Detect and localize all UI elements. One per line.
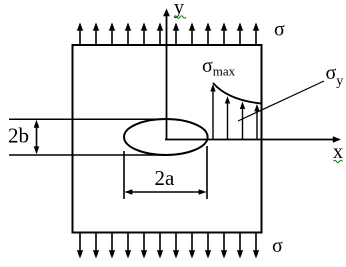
bottom load arrow 4 xyxy=(125,233,131,259)
elliptical hole xyxy=(124,119,208,155)
top load arrow 10 xyxy=(221,23,227,46)
2a right extension line xyxy=(206,146,208,199)
bottom load arrow 10 xyxy=(221,233,227,259)
top load arrow 8 xyxy=(189,23,195,46)
stress distribution curve xyxy=(213,83,261,104)
y-axis xyxy=(163,9,170,141)
svg-text:σy: σy xyxy=(326,62,344,89)
bottom load arrow 6 xyxy=(157,233,163,259)
top load arrow 11 xyxy=(237,23,243,46)
bottom load arrow 8 xyxy=(189,233,195,259)
svg-text:2b: 2b xyxy=(8,124,29,148)
svg-text:σ: σ xyxy=(272,235,283,257)
sigma y leader line xyxy=(238,81,324,121)
svg-text:2a: 2a xyxy=(155,166,176,190)
bottom load arrow 7 xyxy=(173,233,179,259)
spellcheck squiggle under y xyxy=(174,16,186,19)
bottom load arrow 5 xyxy=(141,233,147,259)
2a left extension line xyxy=(123,151,125,199)
top load arrow 2 xyxy=(93,23,99,46)
top load arrow 6 xyxy=(157,23,163,46)
bottom load arrow 2 xyxy=(93,233,99,259)
stress arrow 2 xyxy=(225,96,230,139)
bottom load arrow 12 xyxy=(253,233,259,259)
top load arrow 3 xyxy=(109,23,115,46)
spellcheck squiggle under x xyxy=(334,160,343,163)
2b upper extension line xyxy=(9,118,162,120)
2b lower extension line xyxy=(9,154,166,156)
2b dimension arrow xyxy=(34,120,40,155)
svg-text:σmax: σmax xyxy=(202,55,236,79)
top load arrow 1 xyxy=(77,23,83,46)
svg-text:σ: σ xyxy=(274,19,285,41)
top load arrow 12 xyxy=(253,23,259,46)
plate outline xyxy=(73,45,262,233)
top load arrow 5 xyxy=(141,23,147,46)
x-axis xyxy=(165,136,341,142)
bottom load arrow 11 xyxy=(237,233,243,259)
stress arrow 1 xyxy=(210,84,215,139)
2a dimension arrow xyxy=(124,189,206,195)
top load arrow 9 xyxy=(205,23,211,46)
top load arrow 4 xyxy=(125,23,131,46)
stress arrow 3 xyxy=(240,102,245,140)
bottom load arrow 3 xyxy=(109,233,115,259)
bottom load arrow 9 xyxy=(205,233,211,259)
top load arrow 7 xyxy=(173,23,179,46)
svg-text:x: x xyxy=(333,141,343,163)
bottom load arrow 1 xyxy=(77,233,83,259)
stress arrow 4 xyxy=(254,104,259,139)
